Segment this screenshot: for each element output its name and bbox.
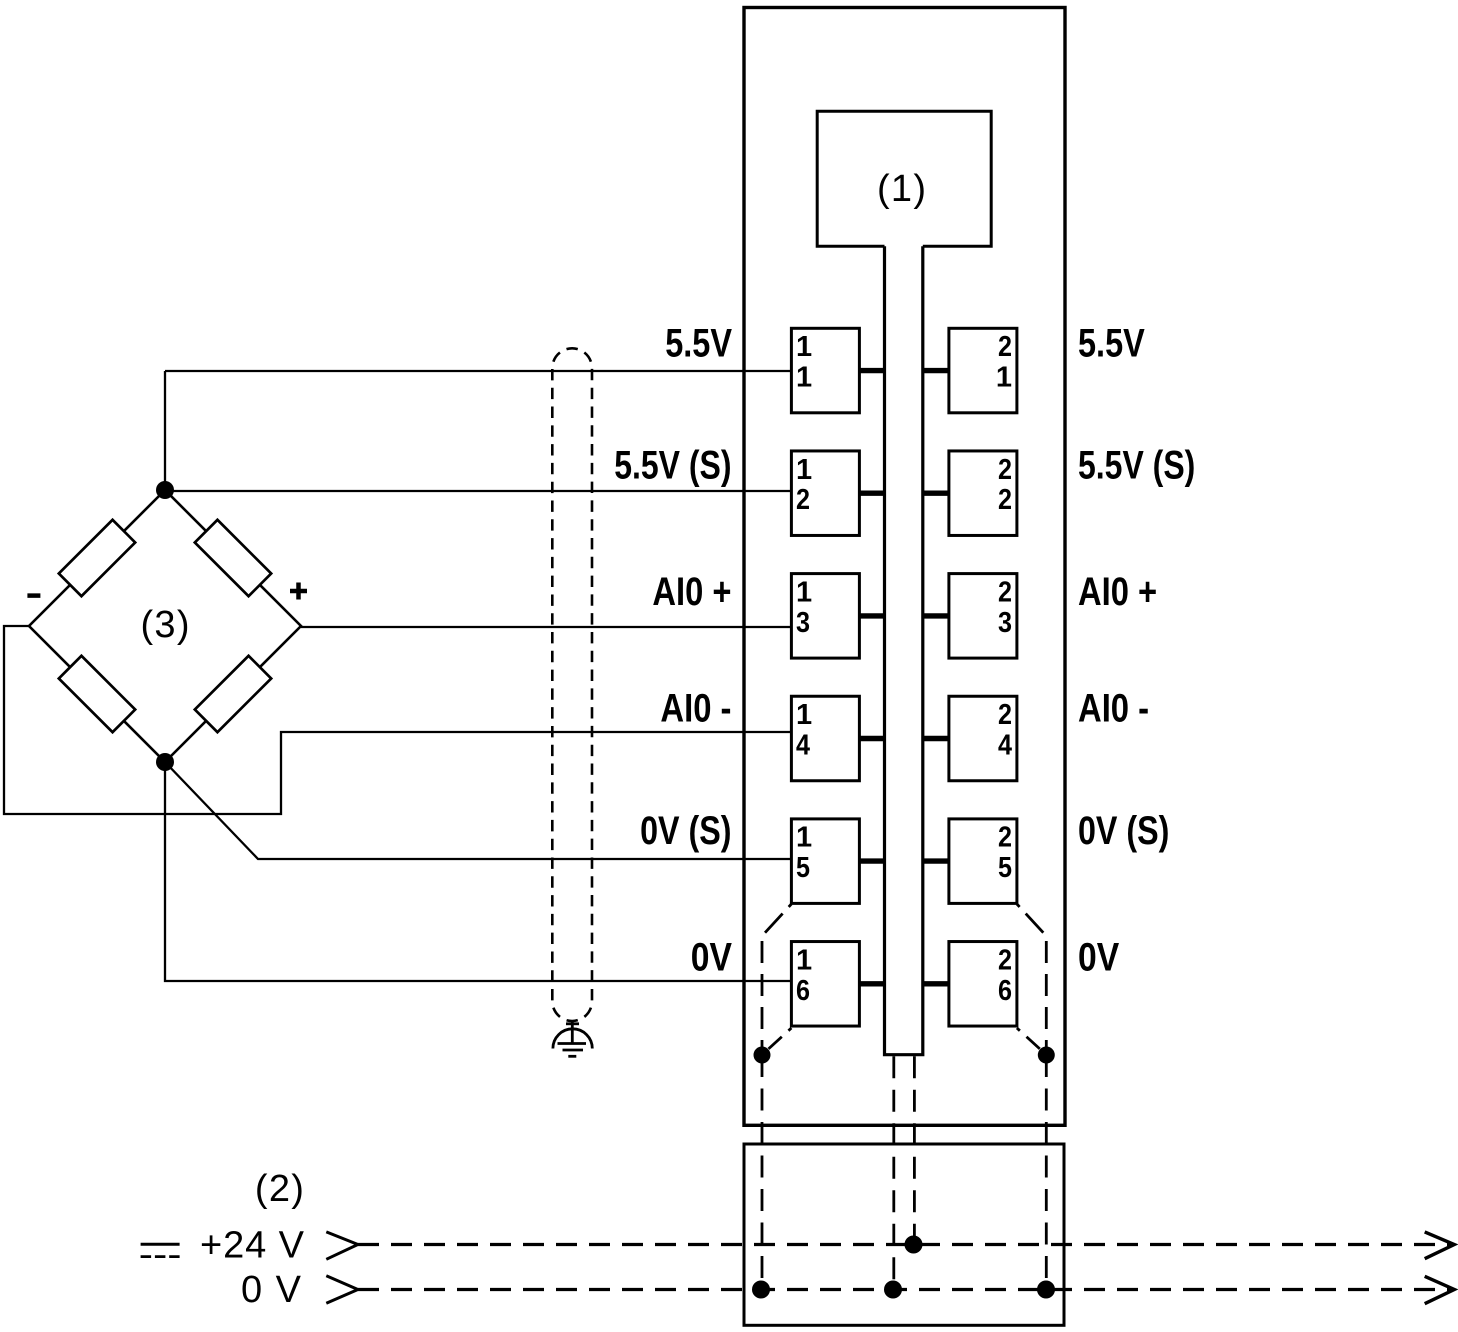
- svg-text:0V: 0V: [691, 935, 732, 979]
- svg-text:2: 2: [998, 454, 1012, 486]
- svg-text:2: 2: [998, 576, 1012, 608]
- polarity minus: [27, 593, 40, 598]
- bus stub left 1-6: [859, 981, 884, 986]
- dashed wire bus-left down to 0V rail: [892, 1056, 895, 1289]
- svg-text:1: 1: [796, 331, 812, 363]
- wire AI0 -: [4, 626, 791, 814]
- net 0 V dashed line: [358, 1288, 1454, 1291]
- bridge resistor R1 top-left: [59, 520, 135, 596]
- svg-text:1: 1: [796, 944, 812, 976]
- dashed stub 1-6 corner to left dot: [764, 1028, 791, 1053]
- terminal 1-5 box: [791, 819, 859, 904]
- terminal 2-1 box: [949, 328, 1017, 413]
- svg-text:1: 1: [796, 576, 812, 608]
- internal bus: [885, 246, 923, 1054]
- svg-text:0 V: 0 V: [241, 1269, 302, 1311]
- strain-gauge bridge (3) outline: [29, 490, 301, 762]
- svg-text:0V: 0V: [1078, 935, 1119, 979]
- svg-text:(1): (1): [877, 168, 926, 210]
- power distribution box (2): [744, 1144, 1064, 1325]
- junction dot 0V rail left: [752, 1281, 770, 1299]
- terminal 1-3 box: [791, 574, 859, 659]
- svg-text:0V (S): 0V (S): [1078, 809, 1169, 853]
- wire 5.5V (S): [165, 490, 791, 492]
- junction dot +24V rail: [905, 1236, 923, 1254]
- svg-text:5.5V: 5.5V: [1078, 322, 1145, 366]
- svg-text:AI0 -: AI0 -: [660, 687, 731, 731]
- bus stub right 2-3: [923, 613, 949, 618]
- bus stub left 1-4: [859, 736, 884, 741]
- dashed wire bus-right down to +24V rail: [913, 1056, 916, 1244]
- svg-text:3: 3: [796, 607, 810, 639]
- junction dot 0V rail centre: [884, 1281, 902, 1299]
- svg-text:2: 2: [796, 484, 810, 516]
- terminal 1-1 box: [791, 328, 859, 413]
- ADC block (1) box: [817, 111, 991, 246]
- svg-text:2: 2: [998, 699, 1012, 731]
- svg-text:3: 3: [998, 607, 1012, 639]
- connector chevron 0 V left: [326, 1276, 358, 1303]
- bridge resistor R3 bottom-left: [59, 656, 135, 732]
- wire 0V (S): [165, 762, 791, 859]
- svg-text:AI0 +: AI0 +: [652, 570, 731, 614]
- terminal 2-6 box: [949, 942, 1017, 1027]
- terminal 2-5 box: [949, 819, 1017, 904]
- svg-text:(3): (3): [141, 604, 190, 646]
- svg-text:1: 1: [796, 362, 812, 394]
- svg-text:5.5V: 5.5V: [665, 322, 732, 366]
- svg-text:5: 5: [998, 852, 1012, 884]
- dashed wire 2-5 corner to right ground rail: [1017, 904, 1046, 936]
- terminal 2-3 box: [949, 574, 1017, 659]
- svg-text:1: 1: [796, 454, 812, 486]
- svg-text:6: 6: [998, 975, 1012, 1007]
- arrow head 0 V right: [1425, 1276, 1455, 1303]
- dashed wire right ground rail down to 0V rail: [1045, 1055, 1048, 1290]
- node top (excitation) junction dot: [156, 481, 174, 499]
- DC supply symbol: [141, 1243, 180, 1246]
- svg-text:+24 V: +24 V: [200, 1225, 305, 1267]
- terminal 1-4 box: [791, 696, 859, 781]
- svg-text:2: 2: [998, 944, 1012, 976]
- terminal 2-2 box: [949, 451, 1017, 536]
- bus stub right 2-5: [923, 858, 949, 863]
- dashed wire left ground rail down to 0V rail: [761, 1055, 764, 1290]
- svg-text:(2): (2): [255, 1168, 304, 1210]
- svg-text:4: 4: [796, 730, 810, 762]
- svg-text:2: 2: [998, 822, 1012, 854]
- terminal 2-4 box: [949, 696, 1017, 781]
- wire bridge top riser: [164, 371, 166, 490]
- bus stub right 2-6: [923, 981, 949, 986]
- bridge resistor R4 bottom-right: [195, 656, 271, 732]
- bus stub right 2-2: [923, 491, 949, 496]
- junction dot right ground rail: [1038, 1047, 1055, 1064]
- wire 5.5V: [165, 370, 791, 372]
- bus stub left 1-2: [859, 491, 884, 496]
- terminal 1-6 box: [791, 942, 859, 1027]
- cable shield (dashed stadium): [552, 348, 592, 1021]
- terminal 1-2 box: [791, 451, 859, 536]
- svg-text:AI0 -: AI0 -: [1078, 687, 1149, 731]
- svg-text:4: 4: [998, 730, 1012, 762]
- wire AI0 +: [301, 626, 791, 628]
- bus stub left 1-5: [859, 858, 884, 863]
- svg-text:1: 1: [796, 699, 812, 731]
- svg-text:1: 1: [996, 362, 1012, 394]
- svg-text:6: 6: [796, 975, 810, 1007]
- svg-text:2: 2: [998, 331, 1012, 363]
- dashed stub 2-6 corner to right dot: [1017, 1028, 1044, 1053]
- svg-text:5.5V (S): 5.5V (S): [614, 443, 731, 487]
- node bottom (return) junction dot: [156, 753, 174, 771]
- junction dot 0V rail right: [1037, 1281, 1055, 1299]
- junction dot left ground rail: [754, 1047, 771, 1064]
- svg-text:5: 5: [796, 852, 810, 884]
- connector chevron +24 V left: [326, 1232, 358, 1259]
- bus stub right 2-1: [923, 368, 949, 373]
- bus stub left 1-1: [859, 368, 884, 373]
- bridge resistor R2 top-right: [195, 520, 271, 596]
- net +24 V dashed line: [358, 1243, 1454, 1246]
- svg-text:1: 1: [796, 822, 812, 854]
- wire 0V: [165, 762, 791, 981]
- polarity plus: [290, 589, 307, 594]
- bus stub right 2-4: [923, 736, 949, 741]
- svg-text:0V (S): 0V (S): [640, 809, 731, 853]
- bus stub left 1-3: [859, 613, 884, 618]
- ground (protective earth) symbol: [553, 1022, 592, 1056]
- arrow head +24 V right: [1425, 1232, 1455, 1259]
- svg-text:5.5V (S): 5.5V (S): [1078, 443, 1195, 487]
- svg-text:AI0 +: AI0 +: [1078, 570, 1157, 614]
- svg-text:2: 2: [998, 484, 1012, 516]
- dashed wire 1-5 corner to left ground rail: [762, 904, 791, 936]
- module U1 outline: [744, 8, 1065, 1126]
